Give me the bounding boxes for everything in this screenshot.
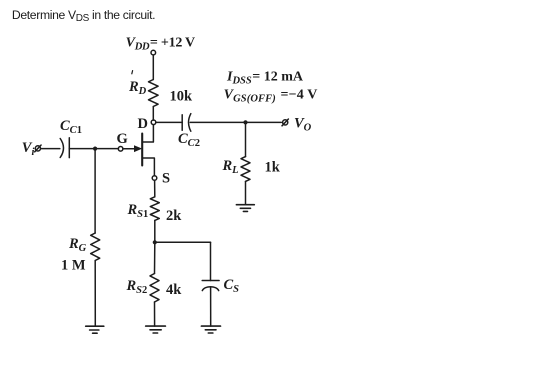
svg-text:2k: 2k: [166, 208, 182, 224]
svg-text:1 M: 1 M: [61, 258, 86, 274]
svg-text:D: D: [138, 116, 148, 132]
svg-text:1k: 1k: [265, 160, 281, 176]
svg-text:10k: 10k: [170, 89, 194, 105]
svg-text:S: S: [162, 171, 170, 187]
svg-text:G: G: [117, 131, 128, 147]
svg-text:4k: 4k: [166, 282, 182, 298]
